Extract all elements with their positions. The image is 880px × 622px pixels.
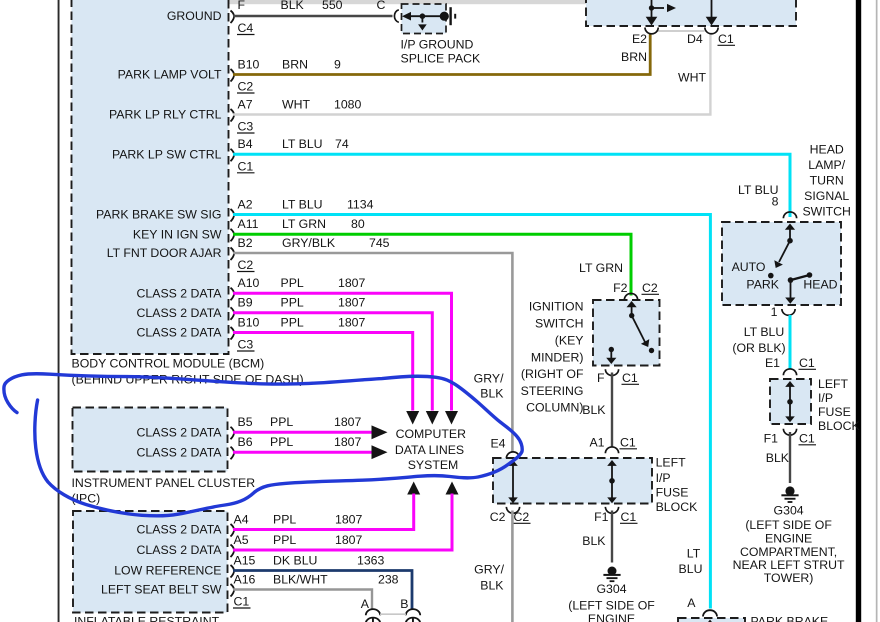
pin bracket B10: [231, 69, 235, 82]
svg-text:238: 238: [378, 572, 399, 586]
wire LT BLU 1134 (park brake sw sig): [233, 215, 710, 609]
svg-text:B4: B4: [238, 137, 253, 151]
headlamp switch wiper arm to AUTO: [779, 241, 790, 262]
left IP fuse block box (right small): [770, 379, 811, 424]
svg-text:A: A: [361, 597, 370, 611]
svg-text:B5: B5: [238, 415, 253, 429]
svg-text:LT GRN: LT GRN: [579, 261, 623, 275]
svg-text:1807: 1807: [334, 415, 362, 429]
svg-text:LAMP/: LAMP/: [808, 158, 845, 172]
class 2 data down arrow B10: [406, 411, 419, 425]
inflatable restraint SIR box: [73, 511, 228, 613]
svg-text:A10: A10: [238, 276, 260, 290]
svg-text:I/P: I/P: [656, 471, 671, 485]
svg-text:C: C: [377, 0, 386, 12]
svg-text:NEAR LEFT STRUT: NEAR LEFT STRUT: [733, 558, 845, 572]
body control module BCM box: [72, 0, 229, 354]
svg-text:B6: B6: [238, 435, 253, 449]
headlamp HEAD contact arm: [791, 275, 810, 280]
svg-text:C1: C1: [799, 356, 815, 370]
connector arc C: [394, 10, 398, 22]
svg-text:F1: F1: [764, 431, 779, 445]
bottom component A connector cup and stem: [366, 618, 381, 622]
class 2 data up arrow A5: [446, 482, 459, 495]
svg-text:1807: 1807: [335, 512, 363, 526]
connector arc F1 (fuse1): [605, 507, 618, 513]
svg-text:C2: C2: [238, 80, 254, 94]
svg-text:PPL: PPL: [270, 435, 293, 449]
pin bracket B6: [231, 447, 235, 460]
svg-text:PPL: PPL: [281, 276, 304, 290]
svg-text:C1: C1: [621, 510, 637, 524]
svg-text:CLASS 2 DATA: CLASS 2 DATA: [137, 326, 223, 340]
svg-text:TURN: TURN: [810, 173, 844, 187]
svg-text:1134: 1134: [347, 197, 374, 211]
headlamp switch common dot: [787, 238, 793, 244]
wire PPL 1807 (class 2 data B9): [233, 313, 432, 411]
pin bracket A5: [231, 545, 235, 558]
pin bracket F: [231, 11, 235, 24]
svg-text:INFLATABLE RESTRAINT: INFLATABLE RESTRAINT: [74, 614, 220, 622]
ignition switch contact dot left: [609, 347, 614, 352]
svg-text:1807: 1807: [338, 276, 366, 290]
connector arc E1: [783, 369, 796, 375]
svg-text:GRY/BLK: GRY/BLK: [282, 236, 336, 250]
svg-text:C1: C1: [620, 435, 636, 449]
svg-text:CLASS 2 DATA: CLASS 2 DATA: [137, 306, 223, 320]
svg-text:BLK: BLK: [766, 451, 790, 465]
ignition switch up arrow: [631, 305, 633, 316]
splice terminal bar: [449, 7, 451, 25]
right page edge gray line: [876, 0, 878, 622]
svg-text:WHT: WHT: [678, 70, 706, 84]
class 2 data up arrow A4: [407, 482, 420, 495]
svg-text:C2: C2: [490, 510, 506, 524]
svg-text:AUTO: AUTO: [732, 260, 766, 274]
svg-text:LT BLU: LT BLU: [744, 325, 785, 339]
wire PPL 1807 (class 2 data B6): [233, 451, 372, 454]
park brake internal arrow: [705, 620, 715, 622]
svg-text:COMPARTMENT,: COMPARTMENT,: [740, 545, 837, 559]
svg-text:FUSE: FUSE: [656, 485, 689, 499]
svg-text:PPL: PPL: [273, 512, 296, 526]
right arrow B5: [372, 425, 388, 439]
headlamp PARK contact dot: [788, 277, 794, 283]
svg-text:BLK: BLK: [582, 403, 606, 417]
I/P ground splice pack box: [402, 4, 447, 34]
svg-text:F2: F2: [613, 281, 628, 295]
svg-text:C2: C2: [238, 258, 254, 272]
svg-text:CLASS 2 DATA: CLASS 2 DATA: [137, 286, 223, 300]
fuse1 right internal element: [611, 465, 613, 499]
svg-text:ENGINE: ENGINE: [765, 532, 812, 546]
svg-text:CLASS 2 DATA: CLASS 2 DATA: [137, 523, 223, 537]
svg-text:COMPUTER: COMPUTER: [396, 427, 466, 441]
svg-text:PPL: PPL: [281, 315, 304, 329]
connector C1 gray bar: [658, 30, 705, 32]
svg-text:BLK: BLK: [480, 386, 504, 400]
wire PPL 1807 (class 2 data A4): [233, 494, 414, 530]
svg-text:1807: 1807: [335, 533, 363, 547]
svg-text:PARK LAMP VOLT: PARK LAMP VOLT: [118, 68, 222, 82]
svg-text:A2: A2: [238, 197, 253, 211]
svg-text:B: B: [400, 597, 408, 611]
splice down arrow: [421, 16, 423, 22]
svg-text:(KEY: (KEY: [555, 333, 584, 347]
connector arc bottom pin A: [366, 609, 380, 615]
splice pack left arrow: [402, 12, 411, 21]
splice pack internal wire: [409, 15, 443, 17]
svg-text:G304: G304: [774, 503, 804, 517]
svg-text:PARK BRAKE: PARK BRAKE: [751, 614, 829, 622]
instrument panel cluster IPC box: [73, 408, 228, 472]
pin bracket B4: [231, 149, 235, 162]
splice terminal tick: [454, 14, 456, 19]
wire BLK fuse2 to G304: [789, 432, 791, 483]
svg-text:PARK: PARK: [746, 277, 779, 291]
connector arc F2: [624, 293, 637, 299]
svg-text:1080: 1080: [334, 97, 362, 111]
svg-text:E4: E4: [490, 436, 505, 450]
wire GRY/BLK below fuse1: [511, 511, 514, 622]
svg-text:E1: E1: [765, 356, 780, 370]
svg-text:SPLICE PACK: SPLICE PACK: [401, 52, 482, 66]
hand drawn blue annotation loop: [4, 374, 522, 516]
svg-text:FUSE: FUSE: [818, 405, 851, 419]
wire PPL 1807 (class 2 data B5): [233, 431, 372, 434]
wire WHT 1080 (park lp rly ctrl): [233, 34, 710, 115]
park brake box (bottom cut): [678, 618, 745, 622]
svg-text:A11: A11: [238, 217, 259, 231]
wire PPL 1807 (class 2 data A10): [233, 293, 452, 410]
headlamp switch down arrow: [790, 280, 792, 299]
svg-text:C1: C1: [234, 595, 250, 609]
wire LT BLU (or blk) headlamp to fuse: [789, 315, 792, 370]
pin bracket B10b: [231, 327, 235, 340]
pin bracket B2: [231, 248, 235, 261]
splice junction dot: [420, 13, 426, 19]
ignition switch dot upper: [629, 313, 634, 318]
right arrow B6: [372, 445, 388, 459]
svg-text:F1: F1: [594, 510, 609, 524]
svg-text:PPL: PPL: [270, 415, 293, 429]
svg-text:I/P GROUND: I/P GROUND: [401, 38, 474, 52]
svg-text:I/P: I/P: [818, 391, 833, 405]
svg-text:1807: 1807: [334, 435, 362, 449]
svg-text:GROUND: GROUND: [167, 9, 222, 23]
svg-text:1: 1: [771, 305, 778, 319]
svg-text:BODY CONTROL MODULE (BCM): BODY CONTROL MODULE (BCM): [72, 356, 265, 370]
svg-text:STEERING: STEERING: [521, 384, 584, 398]
svg-text:PPL: PPL: [281, 296, 304, 310]
top right module box: [586, 0, 796, 26]
pin bracket A7: [231, 109, 235, 122]
pin bracket A10: [231, 288, 235, 301]
svg-text:CLASS 2 DATA: CLASS 2 DATA: [137, 445, 223, 459]
svg-text:BLOCK: BLOCK: [818, 419, 860, 433]
svg-text:C1: C1: [799, 431, 815, 445]
svg-text:G304: G304: [596, 582, 626, 596]
svg-text:(RIGHT OF: (RIGHT OF: [521, 367, 584, 381]
svg-text:SWITCH: SWITCH: [802, 204, 851, 218]
svg-text:BLK: BLK: [281, 0, 305, 12]
wire PPL 1807 (class 2 data A5): [233, 494, 452, 551]
svg-text:SYSTEM: SYSTEM: [408, 458, 459, 472]
class 2 data down arrow B9: [426, 411, 439, 425]
svg-text:C2: C2: [642, 281, 658, 295]
fuse1 left internal element: [512, 465, 514, 499]
wire BLK ignition to fuse1: [611, 373, 613, 447]
top box right arrow: [652, 7, 665, 9]
svg-text:PPL: PPL: [273, 533, 296, 547]
pin bracket A11: [231, 229, 235, 242]
top box junction dot: [649, 5, 654, 10]
pin bracket A15: [231, 565, 235, 578]
svg-text:LEFT: LEFT: [818, 377, 849, 391]
svg-text:C4: C4: [238, 21, 254, 35]
svg-text:C2: C2: [514, 510, 530, 524]
top box internal wire D4: [711, 0, 713, 18]
wire LT BLU 74 (park lp sw ctrl): [233, 154, 790, 217]
svg-text:A7: A7: [238, 97, 253, 111]
svg-text:550: 550: [322, 0, 343, 12]
svg-text:LT BLU: LT BLU: [282, 137, 323, 151]
svg-text:(LEFT SIDE OF: (LEFT SIDE OF: [568, 598, 655, 612]
svg-text:LEFT: LEFT: [656, 456, 687, 470]
svg-text:A5: A5: [234, 533, 249, 547]
svg-text:A1: A1: [589, 435, 604, 449]
pin bracket A2: [231, 209, 235, 222]
svg-text:IGNITION: IGNITION: [529, 299, 584, 313]
svg-text:A4: A4: [234, 512, 249, 526]
svg-text:C3: C3: [238, 338, 254, 352]
top box internal wire E2: [651, 0, 653, 18]
svg-text:TOWER): TOWER): [764, 571, 814, 585]
svg-text:745: 745: [369, 236, 390, 250]
svg-text:MINDER): MINDER): [531, 350, 584, 364]
wire BRN 9 (park lamp volt): [233, 34, 650, 75]
headlamp AUTO contact dot: [768, 273, 774, 279]
connector arc E4: [506, 452, 519, 458]
ignition switch wiper arm: [632, 316, 645, 342]
bottom component B connector cup and stem: [406, 618, 421, 622]
connector arc A park brake: [703, 610, 717, 616]
wire BLK/WHT 238 (left seat belt sw): [233, 590, 372, 610]
svg-text:B9: B9: [238, 296, 253, 310]
svg-text:GRY/: GRY/: [474, 371, 504, 385]
headlamp HEAD contact dot: [807, 272, 813, 278]
fuse2 internal element: [789, 386, 791, 418]
connector arc F (ignition): [605, 369, 618, 375]
wire BLK fuse1 to G304: [611, 511, 613, 563]
svg-text:LOW REFERENCE: LOW REFERENCE: [114, 564, 221, 578]
svg-text:74: 74: [335, 137, 349, 151]
class 2 data down arrow A10: [445, 411, 458, 425]
headlamp switch up arrow: [789, 228, 791, 241]
head lamp turn signal switch box: [722, 222, 841, 305]
svg-text:PARK LP RLY CTRL: PARK LP RLY CTRL: [109, 108, 222, 122]
svg-text:LT FNT DOOR AJAR: LT FNT DOOR AJAR: [107, 246, 222, 260]
svg-text:SWITCH: SWITCH: [535, 316, 584, 330]
wire BLK 550 (ground): [233, 15, 393, 18]
svg-text:BLOCK: BLOCK: [656, 500, 698, 514]
svg-text:SIGNAL: SIGNAL: [804, 189, 849, 203]
left page border line: [58, 0, 60, 622]
svg-text:B10: B10: [238, 57, 260, 71]
connector bar between A and B pins: [380, 613, 406, 615]
svg-text:C1: C1: [622, 371, 638, 385]
svg-text:1363: 1363: [357, 553, 385, 567]
splice terminal dot: [440, 12, 449, 21]
pin bracket B9: [231, 307, 235, 320]
svg-text:C3: C3: [238, 120, 254, 134]
ignition switch contact dot right: [649, 348, 654, 353]
wire PPL 1807 (class 2 data B10): [233, 333, 413, 411]
svg-text:BLK/WHT: BLK/WHT: [273, 572, 328, 586]
svg-text:PARK LP SW CTRL: PARK LP SW CTRL: [112, 148, 222, 162]
ground G304 right symbol: [785, 486, 794, 495]
svg-text:PARK BRAKE SW SIG: PARK BRAKE SW SIG: [96, 208, 222, 222]
svg-text:9: 9: [334, 57, 341, 71]
svg-text:BLK: BLK: [582, 534, 606, 548]
connector arc bottom pin B: [406, 609, 420, 615]
svg-text:1807: 1807: [338, 315, 366, 329]
svg-text:HEAD: HEAD: [810, 142, 844, 156]
connector arc D4: [705, 28, 718, 34]
ignition switch down arrow: [610, 350, 612, 360]
pin bracket A4: [231, 524, 235, 537]
svg-text:WHT: WHT: [282, 97, 310, 111]
wire DK BLU 1363 (low reference): [233, 571, 412, 610]
svg-text:A: A: [687, 596, 696, 610]
svg-text:BRN: BRN: [282, 57, 308, 71]
svg-text:CLASS 2 DATA: CLASS 2 DATA: [137, 426, 223, 440]
svg-text:BLU: BLU: [679, 562, 703, 576]
svg-text:F: F: [238, 0, 246, 12]
pin bracket A16: [231, 584, 235, 597]
connector arc E2: [645, 28, 658, 34]
svg-text:8: 8: [772, 194, 779, 208]
svg-text:(LEFT SIDE OF: (LEFT SIDE OF: [745, 518, 832, 532]
connector arc headlamp top pin 8: [783, 212, 796, 218]
svg-text:KEY IN IGN SW: KEY IN IGN SW: [133, 228, 222, 242]
svg-text:(OR BLK): (OR BLK): [732, 341, 785, 355]
left IP fuse block box (large): [493, 458, 652, 504]
connector arc C2 (fuse1): [506, 507, 519, 513]
svg-text:C1: C1: [238, 159, 254, 173]
svg-text:D4: D4: [687, 32, 703, 46]
ground G304 left symbol: [608, 567, 617, 576]
svg-text:LEFT SEAT BELT SW: LEFT SEAT BELT SW: [101, 583, 222, 597]
svg-text:A16: A16: [234, 572, 256, 586]
svg-text:CLASS 2 DATA: CLASS 2 DATA: [137, 543, 223, 557]
svg-text:GRY/: GRY/: [474, 562, 504, 576]
svg-text:LT BLU: LT BLU: [282, 197, 323, 211]
svg-text:BRN: BRN: [621, 50, 647, 64]
svg-text:C1: C1: [718, 32, 734, 46]
svg-text:LT: LT: [687, 546, 701, 560]
connector arc headlamp bottom pin 1: [782, 309, 795, 315]
svg-text:BLK: BLK: [480, 578, 504, 592]
svg-text:F: F: [597, 371, 605, 385]
svg-text:B2: B2: [238, 236, 253, 250]
svg-text:80: 80: [351, 217, 365, 231]
wire GRY/BLK 745 (lt fnt door ajar): [233, 253, 512, 453]
svg-text:ENGINE: ENGINE: [588, 612, 635, 622]
svg-text:COLUMN): COLUMN): [526, 400, 583, 414]
svg-text:1807: 1807: [338, 296, 366, 310]
top gray edge line: [71, 0, 586, 4]
svg-text:INSTRUMENT PANEL CLUSTER: INSTRUMENT PANEL CLUSTER: [72, 476, 256, 490]
svg-text:LT GRN: LT GRN: [282, 217, 326, 231]
svg-text:DK BLU: DK BLU: [273, 553, 317, 567]
pin bracket B5: [231, 427, 235, 440]
wire LT GRN 80 (key in ign sw): [233, 234, 631, 295]
right page border thick line: [856, 0, 861, 622]
connector arc F1 (fuse2): [783, 429, 796, 435]
svg-text:HEAD: HEAD: [803, 277, 837, 291]
svg-text:A15: A15: [234, 553, 256, 567]
svg-text:DATA LINES: DATA LINES: [395, 443, 464, 457]
svg-text:E2: E2: [632, 32, 647, 46]
ignition switch box: [593, 300, 660, 366]
connector arc A1: [605, 447, 618, 453]
svg-text:B10: B10: [238, 315, 260, 329]
